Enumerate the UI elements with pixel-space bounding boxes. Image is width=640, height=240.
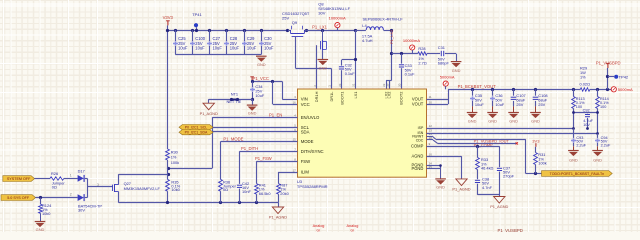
svg-text:20k0: 20k0 xyxy=(280,191,289,196)
svg-text:DITH/SYNC: DITH/SYNC xyxy=(301,149,324,154)
svg-text:5: 5 xyxy=(294,123,296,127)
svg-text:20: 20 xyxy=(397,83,401,87)
svg-text:9: 9 xyxy=(429,142,431,146)
svg-text:NT1: NT1 xyxy=(231,92,238,97)
svg-text:0.02Ω: 0.02Ω xyxy=(580,82,591,87)
svg-text:2: 2 xyxy=(70,193,72,197)
svg-text:2.7Ω: 2.7Ω xyxy=(418,61,426,66)
svg-text:10uF: 10uF xyxy=(213,46,223,51)
svg-text:20: 20 xyxy=(429,100,433,104)
svg-text:17: 17 xyxy=(293,168,297,172)
svg-text:P1_FSW: P1_FSW xyxy=(255,156,272,161)
svg-text:10uF: 10uF xyxy=(264,46,274,51)
svg-text:7: 7 xyxy=(294,148,296,152)
svg-text:10: 10 xyxy=(429,152,433,156)
svg-text:3: 3 xyxy=(294,95,296,99)
svg-text:AGND: AGND xyxy=(411,154,423,159)
svg-text:V3V3: V3V3 xyxy=(163,15,174,20)
svg-text:1: 1 xyxy=(70,174,72,178)
svg-text:5000mA: 5000mA xyxy=(440,74,455,79)
svg-text:C92: C92 xyxy=(583,109,590,113)
svg-text:CDC: CDC xyxy=(416,138,424,142)
svg-text:EN/UVLO: EN/UVLO xyxy=(301,115,320,120)
svg-text:16: 16 xyxy=(293,100,297,104)
svg-text:30V: 30V xyxy=(318,10,325,15)
svg-text:Analog: Analog xyxy=(347,224,359,228)
svg-text:DR1H: DR1H xyxy=(314,91,319,102)
svg-text:GND: GND xyxy=(593,158,602,163)
svg-text:TPS55288RPMR: TPS55288RPMR xyxy=(297,184,328,189)
svg-text:D17: D17 xyxy=(78,169,85,174)
svg-text:GND: GND xyxy=(468,118,477,123)
svg-text:PGND: PGND xyxy=(411,166,423,171)
svg-text:GND: GND xyxy=(509,118,518,123)
svg-text:GND: GND xyxy=(569,158,578,163)
svg-text:ILIM: ILIM xyxy=(301,170,310,175)
svg-text:Q9: Q9 xyxy=(292,20,298,25)
svg-text:46.4kΩ: 46.4kΩ xyxy=(481,165,494,170)
svg-text:P1_LX1: P1_LX1 xyxy=(312,24,328,29)
svg-text:GND: GND xyxy=(36,227,45,232)
svg-text:DR1L: DR1L xyxy=(329,91,334,102)
svg-text:2.2uF: 2.2uF xyxy=(601,144,611,148)
svg-text:MM3K15A0MFV2,LF: MM3K15A0MFV2,LF xyxy=(124,186,161,191)
svg-text:LX1: LX1 xyxy=(353,92,358,99)
svg-text:P1_AGND: P1_AGND xyxy=(490,204,508,209)
svg-text:3V3: 3V3 xyxy=(532,138,540,143)
svg-text:P1_VUSBPD: P1_VUSBPD xyxy=(498,228,523,232)
svg-text:GND: GND xyxy=(452,68,461,73)
svg-text:12: 12 xyxy=(429,124,433,128)
svg-text:11: 11 xyxy=(429,95,432,99)
svg-text:10k0: 10k0 xyxy=(42,211,51,216)
svg-text:1: 1 xyxy=(328,85,332,87)
svg-text:R28: R28 xyxy=(418,46,425,51)
svg-text:30V: 30V xyxy=(78,207,85,212)
svg-text:R26: R26 xyxy=(51,171,58,176)
svg-text:5.0 SYS OFF: 5.0 SYS OFF xyxy=(7,196,30,200)
svg-text:25V: 25V xyxy=(282,16,289,21)
svg-text:3: 3 xyxy=(97,183,99,187)
svg-text:SYSTEM OFF: SYSTEM OFF xyxy=(7,177,31,181)
svg-text:Gr: Gr xyxy=(317,229,321,232)
svg-text:4: 4 xyxy=(294,114,296,118)
svg-text:P1_VCC: P1_VCC xyxy=(253,76,269,81)
svg-text:100: 100 xyxy=(576,105,582,109)
svg-text:10uF: 10uF xyxy=(195,46,205,51)
svg-text:10uF: 10uF xyxy=(255,93,264,98)
svg-text:10uF: 10uF xyxy=(495,102,504,107)
svg-text:P0_I2C1_SCL: P0_I2C1_SCL xyxy=(185,126,207,130)
svg-text:0Ω: 0Ω xyxy=(223,187,228,192)
svg-text:1%: 1% xyxy=(171,154,177,159)
svg-text:1%: 1% xyxy=(580,75,586,80)
svg-text:P0_I2C1_SDA: P0_I2C1_SDA xyxy=(185,131,208,135)
svg-text:Gr: Gr xyxy=(351,229,355,232)
svg-text:P1_MODE: P1_MODE xyxy=(223,136,243,141)
svg-text:P1_VUSBPD: P1_VUSBPD xyxy=(596,60,621,65)
svg-text:FSW: FSW xyxy=(301,159,310,164)
svg-text:GND: GND xyxy=(318,66,327,71)
svg-text:P1_BCKBST_VOUT: P1_BCKBST_VOUT xyxy=(458,84,497,89)
svg-text:100k: 100k xyxy=(538,160,546,165)
svg-text:SDA: SDA xyxy=(301,130,310,135)
svg-text:TODO:PORT1_BCKBST_FAULTn: TODO:PORT1_BCKBST_FAULTn xyxy=(550,172,605,176)
svg-text:10000mA: 10000mA xyxy=(403,38,420,43)
svg-text:TP42: TP42 xyxy=(619,74,629,79)
svg-text:LX2: LX2 xyxy=(387,92,392,99)
svg-text:10uF: 10uF xyxy=(230,46,240,51)
svg-text:100k: 100k xyxy=(171,160,179,165)
svg-text:BOOT2: BOOT2 xyxy=(399,92,404,105)
svg-text:0Ω: 0Ω xyxy=(52,185,57,190)
svg-text:66.5k0: 66.5k0 xyxy=(259,191,272,196)
svg-text:680pF: 680pF xyxy=(438,61,450,66)
svg-text:100: 100 xyxy=(600,105,606,109)
svg-text:VCC: VCC xyxy=(301,102,310,107)
svg-text:VOUT: VOUT xyxy=(412,102,424,107)
svg-text:SEP8060EX-4R7M-LF: SEP8060EX-4R7M-LF xyxy=(363,16,404,21)
svg-text:4.7nF: 4.7nF xyxy=(482,185,493,190)
svg-text:ISP: ISP xyxy=(418,126,424,130)
svg-text:10V: 10V xyxy=(583,123,590,127)
svg-text:19: 19 xyxy=(385,83,389,87)
svg-text:25V: 25V xyxy=(538,102,545,107)
svg-text:10nF: 10nF xyxy=(242,189,251,194)
svg-text:GND: GND xyxy=(257,62,266,67)
svg-text:GND: GND xyxy=(248,111,257,116)
svg-text:P1_AGND: P1_AGND xyxy=(269,215,287,220)
svg-text:4.7uH: 4.7uH xyxy=(362,38,373,43)
svg-text:Analog: Analog xyxy=(313,224,325,228)
svg-text:GND: GND xyxy=(436,185,445,190)
svg-text:15: 15 xyxy=(293,138,297,142)
svg-text:BOOT1: BOOT1 xyxy=(339,92,344,105)
svg-text:P1_LX2: P1_LX2 xyxy=(389,29,394,44)
svg-text:10000mA: 10000mA xyxy=(329,16,346,21)
svg-text:25V: 25V xyxy=(516,102,523,107)
svg-text:P1_DITH: P1_DITH xyxy=(241,146,258,151)
svg-text:21: 21 xyxy=(352,83,356,87)
svg-text:2.2uF: 2.2uF xyxy=(576,144,586,148)
svg-text:P1_AGND: P1_AGND xyxy=(452,187,470,192)
svg-text:TP41: TP41 xyxy=(192,12,202,17)
svg-text:COMP: COMP xyxy=(411,143,424,148)
svg-text:10uF: 10uF xyxy=(247,46,257,51)
svg-text:0.1uF: 0.1uF xyxy=(345,71,356,76)
svg-text:C31: C31 xyxy=(438,45,445,50)
svg-text:5000mA: 5000mA xyxy=(618,87,633,92)
svg-text:10uF: 10uF xyxy=(475,102,484,107)
svg-text:23: 23 xyxy=(338,83,342,87)
svg-text:10k0: 10k0 xyxy=(171,187,180,192)
svg-text:P1_EN: P1_EN xyxy=(269,112,282,117)
svg-text:MODE: MODE xyxy=(301,139,314,144)
svg-text:270pF: 270pF xyxy=(503,174,515,179)
svg-text:0.1uF: 0.1uF xyxy=(405,72,416,77)
svg-text:10uF: 10uF xyxy=(178,46,188,51)
svg-text:P1_AGND: P1_AGND xyxy=(200,111,218,116)
svg-text:GND: GND xyxy=(531,118,540,123)
svg-text:GND: GND xyxy=(488,118,497,123)
svg-text:8: 8 xyxy=(294,157,296,161)
